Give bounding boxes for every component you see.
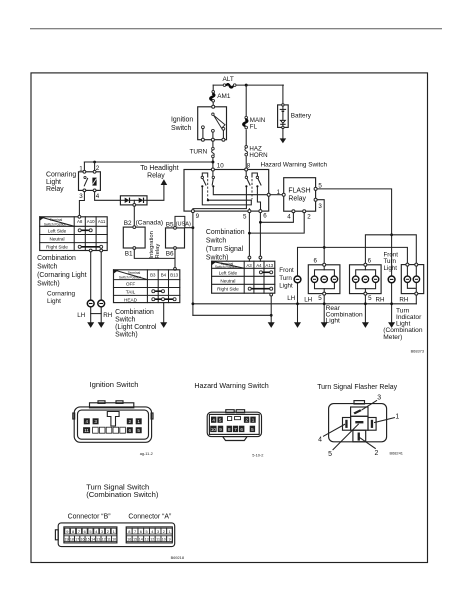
svg-text:A3: A3 <box>246 263 252 268</box>
svg-text:LH: LH <box>287 295 295 302</box>
flash relay pins <box>282 193 285 196</box>
cornering table exits <box>89 249 92 252</box>
svg-text:13: 13 <box>145 537 149 541</box>
svg-text:Connector “A”: Connector “A” <box>128 514 172 521</box>
svg-text:5: 5 <box>318 295 322 302</box>
svg-text:(Cornaring Light: (Cornaring Light <box>37 272 86 279</box>
svg-text:5: 5 <box>251 427 254 432</box>
ground A13 <box>268 322 275 328</box>
wire pin6 down to table A4 <box>259 213 261 262</box>
ground battery <box>280 138 287 143</box>
svg-text:5: 5 <box>89 529 91 534</box>
svg-text:Meter): Meter) <box>383 334 402 341</box>
wire integration relay bottom rail <box>134 249 175 267</box>
wire cornering LH lamp <box>90 252 92 323</box>
integration relay B2/B1 box <box>123 227 145 248</box>
terminal circle to light control table <box>174 268 177 271</box>
svg-text:2: 2 <box>307 214 311 221</box>
svg-text:Switch Position: Switch Position <box>44 222 67 226</box>
connector A pins row1 <box>126 528 172 534</box>
wire battery drop <box>282 85 284 105</box>
svg-text:A10: A10 <box>87 219 95 224</box>
svg-text:B1: B1 <box>125 251 133 258</box>
wire TURN fuse drop <box>212 141 214 169</box>
svg-text:2: 2 <box>96 165 100 172</box>
wire MAIN FL drop <box>245 85 247 169</box>
svg-text:Relay: Relay <box>288 196 306 203</box>
light control switch table <box>114 270 180 303</box>
svg-text:Light: Light <box>384 265 398 272</box>
svg-text:6: 6 <box>314 258 318 265</box>
svg-text:Relay: Relay <box>155 244 161 259</box>
ignition connector pins row2 <box>83 427 142 433</box>
svg-text:4: 4 <box>318 436 322 443</box>
svg-text:11: 11 <box>84 428 89 433</box>
svg-text:3: 3 <box>79 193 83 200</box>
wire ground rail upper <box>193 303 416 305</box>
wire flash pin3 to LH cluster <box>317 200 324 265</box>
ground front LH <box>294 322 301 328</box>
svg-text:9: 9 <box>219 427 222 432</box>
svg-text:Relay: Relay <box>147 173 165 180</box>
cornering relay switch contact <box>84 176 86 178</box>
fuse TURN <box>212 147 215 157</box>
svg-text:Cornaring: Cornaring <box>46 171 76 178</box>
svg-text:8: 8 <box>128 529 130 534</box>
flasher center bar (pin 5) <box>351 416 368 430</box>
junction dot RH feeder <box>390 233 393 236</box>
wire RH cluster pin5 to ground <box>364 295 366 322</box>
diode pack center tap <box>133 200 135 203</box>
svg-text:Relay: Relay <box>46 186 64 193</box>
flasher slot bottom (pin 2) <box>353 430 366 442</box>
connector A pins row2 <box>126 536 172 542</box>
wire flash pin4 to pin6 line <box>260 213 293 223</box>
light control TAIL contacts <box>152 290 165 293</box>
svg-text:1: 1 <box>252 418 255 423</box>
svg-text:Light: Light <box>47 298 61 305</box>
fusible link AM1 <box>210 91 214 102</box>
junction dot at battery branch <box>245 84 248 87</box>
svg-text:Turn Signal Flasher Relay: Turn Signal Flasher Relay <box>317 384 397 391</box>
flasher relay FLASH box <box>284 178 316 212</box>
svg-text:6: 6 <box>129 428 132 433</box>
wire B4 to ground <box>163 303 165 323</box>
svg-text:ALT: ALT <box>223 76 234 83</box>
svg-text:10: 10 <box>217 162 224 169</box>
svg-text:Switch: Switch <box>206 237 226 244</box>
svg-text:Right Side: Right Side <box>46 245 68 250</box>
svg-text:Left Side: Left Side <box>48 229 67 234</box>
svg-text:A13: A13 <box>265 263 273 268</box>
wire LH cluster pin5 to ground <box>323 295 325 322</box>
svg-text:3: 3 <box>157 529 159 534</box>
hazard switch right pin <box>267 193 270 196</box>
svg-text:8: 8 <box>228 427 231 432</box>
svg-text:Right Side: Right Side <box>217 286 239 291</box>
svg-text:15: 15 <box>86 537 90 541</box>
svg-text:Light: Light <box>326 318 340 325</box>
svg-text:Turn: Turn <box>384 258 397 265</box>
svg-text:(Canada): (Canada) <box>136 219 164 226</box>
svg-text:12: 12 <box>150 537 154 541</box>
svg-text:A8: A8 <box>77 219 83 224</box>
wire relay pin3 to table A8 <box>79 192 84 217</box>
hazard/turn switch box <box>184 170 269 212</box>
wire diode pack to headlight relay arrow <box>147 185 164 201</box>
ground LH cluster <box>321 322 328 328</box>
wire pin9 down <box>192 213 194 316</box>
cornering table Left Side contacts <box>78 229 92 232</box>
svg-text:Terminal: Terminal <box>128 271 141 275</box>
svg-text:Switch): Switch) <box>115 332 138 339</box>
svg-text:Combination: Combination <box>115 309 154 316</box>
svg-text:6: 6 <box>263 213 267 220</box>
svg-text:6: 6 <box>84 529 86 534</box>
wire ground rail lower <box>193 314 271 316</box>
lamps LH cluster <box>311 276 337 282</box>
junction dot cornering relay pin2 riser <box>93 161 96 164</box>
wire RH feeder horizontal <box>365 235 416 265</box>
wire flash pin2 to pin5 line <box>249 213 304 233</box>
ground cornering LH <box>87 322 94 328</box>
svg-text:15: 15 <box>133 537 137 541</box>
svg-text:Switch): Switch) <box>37 280 60 287</box>
lamp cornering RH <box>98 300 105 307</box>
svg-text:8: 8 <box>72 529 74 534</box>
svg-text:17: 17 <box>75 537 79 541</box>
rear combination light LH cluster <box>308 263 340 295</box>
hazard switch right assembly <box>245 171 261 199</box>
svg-text:Battery: Battery <box>291 113 312 120</box>
cornering table entry circle A8 <box>78 215 81 218</box>
ignition connector pins row1 <box>84 418 142 424</box>
svg-text:Turn: Turn <box>279 275 292 282</box>
svg-text:HEAD: HEAD <box>124 297 138 302</box>
hazard switch connector body <box>207 410 261 441</box>
fuse HAZ HORN <box>245 146 248 156</box>
svg-text:1: 1 <box>79 166 83 173</box>
ignition switch top pin <box>212 105 215 108</box>
svg-text:HORN: HORN <box>249 152 267 159</box>
svg-text:5: 5 <box>137 428 140 433</box>
svg-text:6: 6 <box>140 529 142 534</box>
svg-text:5: 5 <box>219 418 222 423</box>
cornering table Right Side contacts <box>78 245 103 248</box>
svg-text:10: 10 <box>162 537 166 541</box>
svg-text:Switch: Switch <box>37 264 57 271</box>
main border frame <box>31 73 428 563</box>
svg-text:16: 16 <box>81 537 85 541</box>
junction dot TURN to cornering feed <box>211 161 214 164</box>
svg-text:5-10-2: 5-10-2 <box>252 453 263 458</box>
svg-text:B2: B2 <box>124 220 132 227</box>
lamps RH cluster <box>353 276 379 282</box>
wire front LH lamp to ground <box>297 283 299 322</box>
junction dot on pin9 wire <box>192 226 195 229</box>
svg-text:Hazard Warning Switch: Hazard Warning Switch <box>261 162 328 169</box>
ignition switch bottom pins <box>201 138 225 141</box>
svg-text:5: 5 <box>328 451 332 458</box>
svg-text:4: 4 <box>287 214 291 221</box>
svg-text:B4: B4 <box>161 272 167 277</box>
svg-text:Switch: Switch <box>115 317 135 324</box>
hazard switch top pins <box>211 168 214 171</box>
diode pack box <box>120 196 147 205</box>
wire relay pin4 to diode pack <box>95 192 121 201</box>
wire cornering lamps tie bar <box>91 313 102 315</box>
cornering light relay box <box>79 172 101 191</box>
ground cornering RH <box>98 322 105 328</box>
turn signal switch table <box>212 261 275 293</box>
svg-text:9: 9 <box>66 529 68 534</box>
svg-text:TAIL: TAIL <box>126 290 136 295</box>
svg-text:RH: RH <box>376 297 385 304</box>
wire battery to ground <box>282 129 284 139</box>
svg-text:FLASH: FLASH <box>288 188 310 195</box>
svg-text:9: 9 <box>169 537 171 541</box>
flasher slot right (pin 1) <box>368 418 376 431</box>
svg-text:B5: B5 <box>166 221 174 228</box>
svg-text:14: 14 <box>91 537 95 541</box>
svg-text:AM1: AM1 <box>217 93 231 100</box>
connector B pins row1 <box>65 528 116 534</box>
svg-text:10: 10 <box>211 427 217 432</box>
svg-text:5: 5 <box>146 529 148 534</box>
svg-text:Hazard Warning Switch: Hazard Warning Switch <box>194 382 268 390</box>
integration relay B5/B6 box <box>166 228 185 248</box>
svg-text:OFF: OFF <box>126 282 136 287</box>
ground front RH <box>388 322 395 328</box>
junction dot LH feeder <box>323 246 326 249</box>
svg-text:Ignition Switch: Ignition Switch <box>90 380 139 389</box>
svg-text:4: 4 <box>212 418 215 423</box>
svg-text:3: 3 <box>318 203 322 210</box>
svg-text:B6: B6 <box>166 251 174 258</box>
svg-text:6: 6 <box>240 427 243 432</box>
wire cornering RH lamp <box>100 252 102 323</box>
wire pin5 down to table A3 <box>248 213 250 262</box>
flasher relay body <box>329 401 387 442</box>
svg-text:11: 11 <box>107 537 111 541</box>
wire flash pin5 to RH feeder <box>317 189 392 276</box>
hazard connector pins row1 <box>211 417 256 423</box>
hazard switch bottom pins <box>191 210 194 213</box>
svg-text:Combination: Combination <box>206 229 245 236</box>
wire B5 top zigzag to pin9 line <box>175 216 193 227</box>
light control HEAD contacts <box>152 298 176 301</box>
wire front RH lamp to ground <box>391 283 393 322</box>
svg-text:1: 1 <box>113 529 115 534</box>
svg-text:13: 13 <box>96 537 100 541</box>
wire cornering relay pin risers <box>84 162 94 172</box>
svg-text:5: 5 <box>368 295 372 302</box>
svg-text:2: 2 <box>129 419 132 424</box>
svg-text:10: 10 <box>112 537 116 541</box>
svg-text:RH: RH <box>399 297 408 304</box>
svg-text:Front: Front <box>279 267 294 274</box>
svg-text:14: 14 <box>139 537 143 541</box>
svg-text:2: 2 <box>375 450 379 457</box>
svg-text:Neutral: Neutral <box>220 278 235 283</box>
svg-text:1: 1 <box>169 529 171 534</box>
svg-text:LH: LH <box>304 297 312 304</box>
svg-text:6: 6 <box>368 258 372 265</box>
svg-text:A11: A11 <box>98 219 106 224</box>
svg-text:9: 9 <box>196 213 200 220</box>
svg-text:Combination: Combination <box>37 255 76 262</box>
flasher pin leaders <box>324 401 395 450</box>
turn table Right Side contacts <box>248 287 273 290</box>
rear combination light RH cluster <box>350 263 382 295</box>
fusible link ALT <box>223 84 236 88</box>
svg-text:Cornaring: Cornaring <box>47 291 76 298</box>
svg-text:B68373: B68373 <box>411 348 424 353</box>
ignition switch connector body <box>73 401 153 443</box>
hazard connector pins row2 <box>210 426 255 432</box>
svg-text:5: 5 <box>243 214 247 221</box>
svg-text:1: 1 <box>137 419 140 424</box>
svg-text:Left Side: Left Side <box>219 270 238 275</box>
diode D1 <box>120 198 129 203</box>
svg-text:Light: Light <box>279 283 293 290</box>
svg-text:4: 4 <box>96 193 100 200</box>
svg-text:12: 12 <box>102 537 106 541</box>
ground RH cluster <box>362 322 369 328</box>
wire hazard pin1 to flash relay <box>270 194 284 196</box>
svg-text:3: 3 <box>94 419 97 424</box>
svg-text:Switch Position: Switch Position <box>215 265 238 269</box>
cornering switch table <box>40 217 108 251</box>
svg-text:(USA): (USA) <box>176 222 191 228</box>
svg-text:FL: FL <box>250 123 258 130</box>
wire ALT feed horizontal <box>213 84 283 86</box>
svg-text:19: 19 <box>65 537 69 541</box>
turn indicator cluster box <box>401 263 423 304</box>
lamp cornering LH <box>87 300 94 307</box>
svg-text:(Combination Switch): (Combination Switch) <box>86 490 159 499</box>
top rule <box>30 28 442 30</box>
ignition switch contacts and stubs <box>202 126 225 140</box>
svg-text:LH: LH <box>77 312 85 319</box>
ignition switch blade <box>214 115 225 128</box>
svg-text:1: 1 <box>395 414 399 421</box>
ignition switch pivot <box>212 113 214 115</box>
wire A13 to ground <box>270 296 272 323</box>
hazard switch left assembly <box>201 171 214 200</box>
flasher slot top (pin 3) <box>351 407 368 416</box>
svg-text:(Light Control: (Light Control <box>115 324 157 331</box>
cornering relay coil <box>92 178 96 186</box>
svg-text:4: 4 <box>86 419 89 424</box>
wire cornering feed horizontal <box>84 161 213 163</box>
svg-text:2: 2 <box>245 418 248 423</box>
svg-text:RH: RH <box>103 312 112 319</box>
wire AM1 drop <box>212 85 214 105</box>
svg-text:2: 2 <box>107 529 109 534</box>
svg-text:2: 2 <box>163 529 165 534</box>
svg-text:3: 3 <box>101 529 103 534</box>
svg-text:ag-11-2: ag-11-2 <box>140 451 153 456</box>
svg-text:16: 16 <box>127 537 131 541</box>
svg-text:Neutral: Neutral <box>49 237 64 242</box>
svg-text:Switch): Switch) <box>206 254 229 261</box>
svg-text:7: 7 <box>134 529 136 534</box>
svg-text:11: 11 <box>156 537 160 541</box>
turn table Left Side contacts <box>259 271 272 274</box>
flasher slot left (pin 4) <box>343 418 351 431</box>
svg-text:B69218: B69218 <box>171 555 184 560</box>
svg-text:B68241: B68241 <box>390 451 403 456</box>
wire tap to B2 <box>133 206 135 227</box>
battery <box>278 104 289 129</box>
lamps turn indicator <box>404 276 419 282</box>
svg-text:Switch Position: Switch Position <box>119 276 142 280</box>
ground B4 <box>160 322 167 328</box>
turn signal switch connector body <box>55 523 174 547</box>
ignition connector key slot <box>107 412 119 427</box>
svg-text:TURN: TURN <box>190 149 208 156</box>
diode D2 <box>130 198 148 203</box>
svg-text:18: 18 <box>70 537 74 541</box>
svg-text:7: 7 <box>234 427 237 432</box>
connector B pins row2 <box>64 536 117 542</box>
svg-text:Ignition: Ignition <box>171 117 193 124</box>
svg-text:7: 7 <box>78 529 80 534</box>
terminal circle A13 exit <box>270 293 273 296</box>
svg-text:Switch: Switch <box>171 125 191 132</box>
hazard switch internal wiring <box>193 187 269 211</box>
svg-text:Light: Light <box>46 179 61 186</box>
cornering relay pins <box>83 170 86 173</box>
lamp front turn LH <box>294 276 301 283</box>
wire LH feeder horizontal <box>298 247 408 275</box>
fusible link MAIN FL <box>243 116 247 129</box>
svg-text:To Headlight: To Headlight <box>140 165 178 172</box>
svg-text:B3: B3 <box>150 272 156 277</box>
svg-text:(Turn Signal: (Turn Signal <box>206 246 244 253</box>
svg-text:B13: B13 <box>170 272 178 277</box>
ignition switch box <box>198 107 227 140</box>
svg-text:A4: A4 <box>256 263 262 268</box>
svg-text:3: 3 <box>377 395 381 402</box>
svg-text:Connector “B”: Connector “B” <box>68 514 112 521</box>
lamp front turn RH <box>388 276 395 283</box>
